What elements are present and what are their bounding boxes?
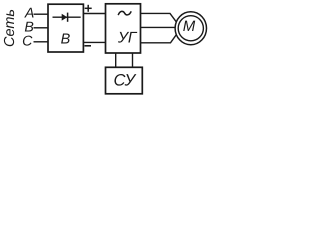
- wire inverter to motor phase 2: [140, 26, 191, 28]
- svg-text:В: В: [61, 32, 71, 48]
- AC symbol ~: [118, 11, 131, 15]
- motor M inner circle: [178, 16, 203, 41]
- wire - bus (rectifier to inverter): [83, 41, 106, 43]
- svg-text:С: С: [22, 33, 33, 49]
- motor M outer circle: [175, 12, 206, 45]
- diode symbol: [53, 13, 81, 22]
- wire phase A: [34, 13, 50, 15]
- svg-text:М: М: [183, 18, 196, 35]
- wire inverter to control unit 1: [115, 52, 117, 68]
- wire inverter to motor phase 1: [140, 13, 181, 28]
- minus sign: [85, 45, 92, 47]
- wire inverter to control unit 2: [132, 52, 134, 68]
- wire phase B: [34, 27, 50, 29]
- svg-text:СУ: СУ: [114, 72, 137, 90]
- svg-text:УГ: УГ: [117, 30, 138, 47]
- wire + bus (rectifier to inverter): [83, 13, 106, 15]
- plus sign: [85, 5, 92, 12]
- control unit block СУ: [106, 67, 143, 94]
- rectifier block В: [48, 4, 83, 52]
- svg-text:Сеть: Сеть: [2, 9, 18, 47]
- inverter block УГ: [106, 4, 141, 53]
- wire phase C: [34, 41, 50, 43]
- wire inverter to motor phase 3: [140, 28, 181, 43]
